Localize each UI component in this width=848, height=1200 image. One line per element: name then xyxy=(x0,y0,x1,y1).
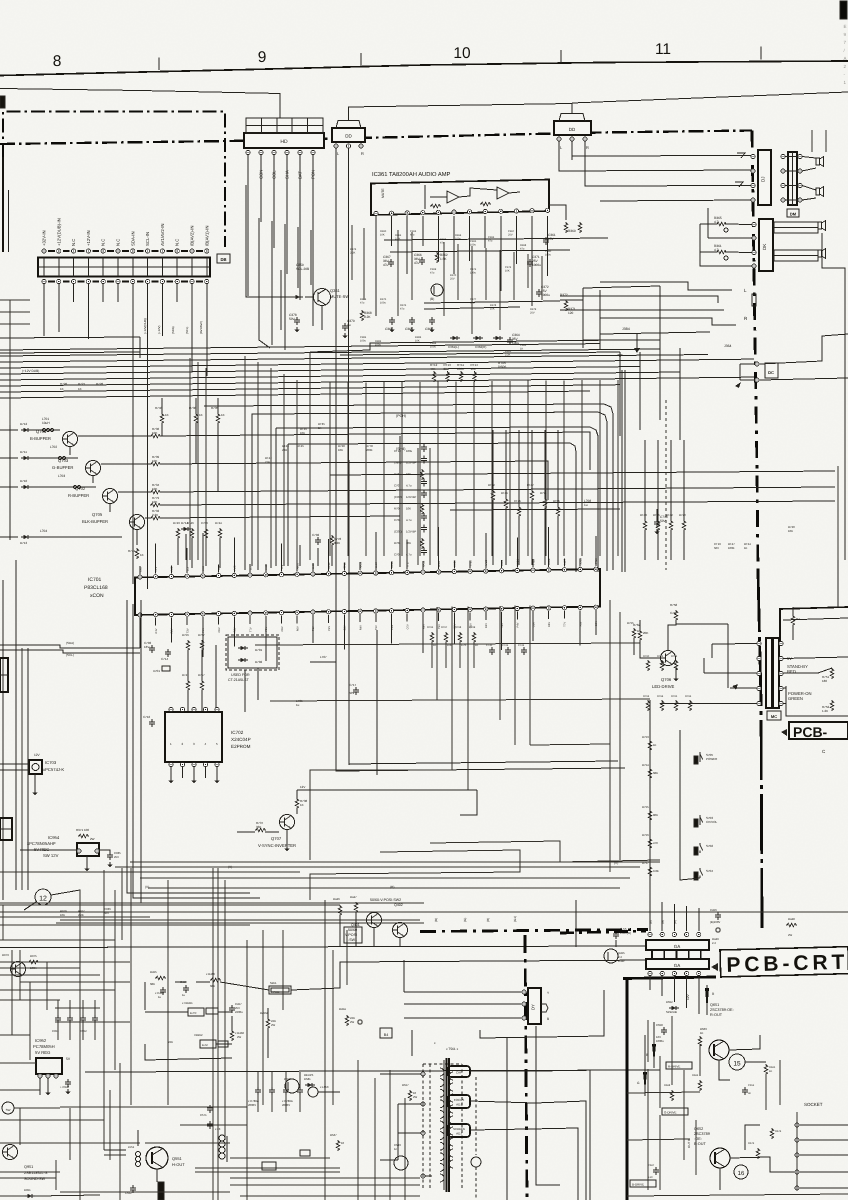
svg-text:R557: R557 xyxy=(402,1083,409,1087)
svg-text:47K: 47K xyxy=(430,367,435,371)
resistor R737 xyxy=(237,821,279,832)
svg-text:47u: 47u xyxy=(400,307,405,310)
wire left rail buffers xyxy=(9,425,11,540)
svg-text:R762: R762 xyxy=(671,655,678,658)
connector DJ plug body xyxy=(788,152,797,205)
connector DK pins xyxy=(752,222,756,268)
wire DD2 to right edge xyxy=(572,92,848,103)
resistor R557 xyxy=(402,1083,418,1101)
op-amp IC701 body xyxy=(135,569,600,615)
transistor Q406 small xyxy=(284,1077,299,1093)
heavy dash boundary bottom-left xyxy=(420,930,648,932)
wire thick 5V feed xyxy=(780,607,848,704)
heavy boundary vertical mid xyxy=(758,572,762,930)
svg-text:R769: R769 xyxy=(469,626,476,629)
capacitor C366 xyxy=(414,253,425,265)
svg-text:C721: C721 xyxy=(502,644,509,647)
capacitor C667 xyxy=(648,1164,659,1179)
connector DD1 pin labels xyxy=(337,151,364,156)
connector GA pins top xyxy=(648,932,701,936)
diode row D361 D362 xyxy=(448,336,503,349)
inductor L701 xyxy=(31,417,60,432)
svg-text:C667: C667 xyxy=(648,1164,655,1167)
svg-text:47u: 47u xyxy=(430,271,435,274)
svg-text:C658: C658 xyxy=(656,1023,663,1027)
ruler line xyxy=(0,61,848,76)
svg-text:1K: 1K xyxy=(653,743,657,747)
wires IC361 pins down xyxy=(376,216,548,316)
op-amp IC702 pins top xyxy=(169,707,219,711)
svg-text:R763: R763 xyxy=(643,695,650,698)
transistor Q551 H-OUT xyxy=(146,1147,185,1169)
svg-text:16V: 16V xyxy=(144,645,149,649)
svg-text:1K: 1K xyxy=(769,1070,772,1073)
svg-text:R765: R765 xyxy=(671,695,678,698)
svg-text:R764: R764 xyxy=(657,695,664,698)
svg-text:R-OUT: R-OUT xyxy=(710,1013,723,1017)
svg-text:B+52: B+52 xyxy=(202,1044,209,1047)
flyback secondary coil xyxy=(449,1072,453,1168)
capacitor C364 xyxy=(507,333,520,345)
svg-text:C362(R): C362(R) xyxy=(475,345,486,349)
op-amp IC703 body xyxy=(29,760,42,774)
op-amp IC361 pins xyxy=(374,208,550,215)
op-amp IC954 body xyxy=(77,843,99,856)
resistor R756 R757 pair xyxy=(182,633,205,651)
svg-text:D701: D701 xyxy=(255,648,263,652)
wires Q651 right xyxy=(719,1035,766,1080)
wire long verticals left-bottom xyxy=(80,868,347,1200)
wire horizontals mid right xyxy=(330,471,835,520)
diode D713 input xyxy=(0,529,122,545)
svg-text:R756: R756 xyxy=(182,633,189,637)
resistor R739 xyxy=(101,455,548,500)
svg-text:10K: 10K xyxy=(300,431,305,435)
svg-text:(R): (R) xyxy=(673,920,677,924)
svg-text:AV1/AV2-IN: AV1/AV2-IN xyxy=(160,223,165,246)
heavy dash vertical DY xyxy=(525,935,527,1200)
wires Q652 area xyxy=(720,1125,794,1190)
resistor R448 xyxy=(786,917,797,937)
svg-text:(G): (G) xyxy=(661,920,665,924)
svg-text:C717: C717 xyxy=(349,683,357,687)
svg-text:D581: D581 xyxy=(304,1077,311,1081)
svg-text:SOUND-SW: SOUND-SW xyxy=(24,1177,46,1181)
connector DD1 pins xyxy=(334,144,363,148)
wires bottom-left mesh xyxy=(0,950,140,1200)
svg-text:R: R xyxy=(586,145,589,150)
capacitor C658 xyxy=(656,1023,667,1043)
label MC xyxy=(767,711,781,720)
ruler tick 1 xyxy=(158,58,160,71)
transistor Q704 B-BUFFER xyxy=(30,429,78,447)
wire DD1 to DD2 arc xyxy=(349,104,573,121)
svg-text:(SDA): (SDA) xyxy=(66,641,74,645)
svg-text:10K: 10K xyxy=(490,307,495,310)
diode D710 input xyxy=(0,479,31,489)
svg-text:Q703: Q703 xyxy=(58,458,69,463)
svg-text:50V: 50V xyxy=(714,546,719,550)
wires Q707 xyxy=(284,790,477,851)
node circle SW xyxy=(2,1102,14,1114)
svg-text:VR452: VR452 xyxy=(194,1033,203,1037)
svg-text:100u: 100u xyxy=(360,339,366,342)
svg-text:C720: C720 xyxy=(486,644,493,647)
svg-text:47u: 47u xyxy=(383,263,389,267)
svg-text:ADJ: ADJ xyxy=(456,1103,462,1107)
svg-text:USED FOR: USED FOR xyxy=(231,673,250,677)
inductor L553 xyxy=(308,1085,340,1097)
svg-text:50V: 50V xyxy=(104,911,109,915)
svg-text:MC: MC xyxy=(771,714,777,719)
resistor R736 xyxy=(78,427,590,470)
svg-text:S451: S451 xyxy=(270,981,277,985)
resistor R738a xyxy=(189,398,203,464)
resistor R663 cluster xyxy=(698,1027,707,1047)
wires GA feeds down xyxy=(650,900,699,931)
svg-text:P83CL168: P83CL168 xyxy=(84,585,108,591)
speaker SP1 top xyxy=(816,157,824,167)
wires GA pins top labels xyxy=(649,920,677,924)
svg-text:9: 9 xyxy=(258,49,267,66)
op-amp IC952 label xyxy=(33,1038,55,1055)
op-amp IC702 label xyxy=(231,730,251,749)
svg-text:V-SYNC-INVERTER: V-SYNC-INVERTER xyxy=(258,843,296,848)
svg-text:SP#2UB: SP#2UB xyxy=(666,1010,677,1014)
svg-text:10uH: 10uH xyxy=(42,421,50,425)
svg-text:86K: 86K xyxy=(653,813,658,817)
small box left edge xyxy=(0,818,12,840)
svg-text:V-POSI: V-POSI xyxy=(345,933,357,937)
svg-text:R448: R448 xyxy=(788,917,795,921)
svg-text:(SCL): (SCL) xyxy=(66,653,74,657)
connector DB pin row lower xyxy=(42,279,209,283)
svg-text:J364: J364 xyxy=(724,344,731,348)
op-amp IC702 pins bottom xyxy=(169,762,219,766)
svg-text:10K: 10K xyxy=(471,367,476,371)
svg-text:R446: R446 xyxy=(333,897,340,901)
amp area vertical stubs xyxy=(352,225,542,334)
svg-text:120: 120 xyxy=(568,311,574,315)
svg-text:GA: GA xyxy=(674,944,681,949)
svg-text:Q704: Q704 xyxy=(36,429,47,434)
svg-text:IC954: IC954 xyxy=(48,835,60,840)
svg-text:R748: R748 xyxy=(155,406,163,410)
svg-text:2000V: 2000V xyxy=(248,1103,256,1107)
wire stepped runs lower-mid xyxy=(310,841,660,900)
svg-text:R762: R762 xyxy=(633,623,641,627)
wires DK left xyxy=(700,208,752,266)
svg-text:R665: R665 xyxy=(769,1066,776,1069)
op-amp IC702 body xyxy=(165,712,222,762)
transistor Q361 MUTE-SW xyxy=(305,288,349,306)
svg-text:x L553: x L553 xyxy=(320,1085,329,1089)
svg-text:(+12V): (+12V) xyxy=(157,325,161,334)
capacitor C563 xyxy=(394,1143,408,1170)
svg-text:J3B4: J3B4 xyxy=(622,327,630,331)
svg-text:D712: D712 xyxy=(20,422,28,426)
svg-text:Q651: Q651 xyxy=(710,1003,719,1007)
capacitor C378 xyxy=(289,313,300,332)
svg-text:B+TR: B+TR xyxy=(190,1012,197,1015)
svg-text:CT-21A5LST: CT-21A5LST xyxy=(228,678,250,682)
svg-text:D710: D710 xyxy=(20,479,28,483)
switch S705 POWER xyxy=(694,752,718,764)
svg-text:1K: 1K xyxy=(78,387,82,391)
wires left column mid xyxy=(3,560,28,900)
wires into DY xyxy=(404,960,521,1018)
connector DB body xyxy=(38,258,210,277)
svg-text:2SC3789-OE-: 2SC3789-OE- xyxy=(710,1008,735,1012)
resistor R764 ladder xyxy=(642,735,659,877)
svg-text:1000u: 1000u xyxy=(532,263,541,267)
node circle 12 xyxy=(35,889,51,905)
connector DB pin row upper xyxy=(42,249,209,253)
svg-text:R743: R743 xyxy=(173,521,180,525)
svg-text:L704: L704 xyxy=(40,529,47,533)
svg-text:RT45: RT45 xyxy=(297,444,304,448)
connector GA body lower xyxy=(646,959,709,969)
capacitor C361 xyxy=(543,233,556,245)
label USED FOR CT-21A5LST xyxy=(228,673,250,682)
svg-text:11: 11 xyxy=(655,41,671,58)
resistor R456A xyxy=(260,1011,276,1029)
svg-text:(B)160V: (B)160V xyxy=(710,920,720,924)
svg-text:Q401: Q401 xyxy=(351,923,360,927)
diode D712 input xyxy=(0,422,31,432)
svg-text:T5V: T5V xyxy=(375,625,378,630)
connector DJ pins left xyxy=(751,154,755,202)
wires IC954 left xyxy=(20,850,110,852)
resistor cluster R766 group xyxy=(427,626,478,668)
svg-text:E2PROM: E2PROM xyxy=(231,744,251,749)
transistor Q706 LED-DRIVE xyxy=(652,651,676,690)
connector MD pins left column xyxy=(757,641,761,705)
wires IC703 xyxy=(0,764,38,795)
svg-text:(+12V DUB): (+12V DUB) xyxy=(22,369,39,373)
svg-text:12V: 12V xyxy=(34,753,41,757)
transistor Q707 V-SYNC-INVERTER xyxy=(258,815,296,849)
wires DB pins down xyxy=(44,284,207,589)
svg-text:DSP6: DSP6 xyxy=(498,365,507,369)
svg-text:100u: 100u xyxy=(380,301,386,304)
wires vposi mid xyxy=(145,960,660,1060)
svg-text:R768: R768 xyxy=(455,626,462,629)
label DB xyxy=(217,254,230,263)
black bar heatsink xyxy=(158,1182,164,1200)
wire loop left drops xyxy=(252,417,288,566)
svg-text:+12V-IN: +12V-IN xyxy=(86,230,91,246)
wires right edge box xyxy=(783,560,848,620)
svg-text:T7V: T7V xyxy=(249,627,252,632)
svg-text:BLK-BUFFER: BLK-BUFFER xyxy=(82,519,108,524)
svg-text:MUTE-SW: MUTE-SW xyxy=(330,294,349,299)
svg-text:10K: 10K xyxy=(152,459,157,463)
svg-text:DC: DC xyxy=(768,370,774,375)
resistor R738 vsync xyxy=(295,790,307,814)
wires IC701 long drops left xyxy=(300,605,530,860)
wire tall verticals center-right xyxy=(530,600,620,872)
wire LED horizontals xyxy=(660,624,758,704)
socket pins xyxy=(795,1112,848,1190)
transistor Q953 xyxy=(2,953,26,977)
svg-text:2W: 2W xyxy=(350,1020,355,1024)
wires IC701 bottom pin stubs xyxy=(140,610,596,661)
wires bus to IC701 left xyxy=(190,352,310,560)
svg-text:R2V: R2V xyxy=(485,623,488,628)
svg-text:A: A xyxy=(844,56,847,61)
capacitor C940 xyxy=(60,1079,71,1094)
svg-text:+32V-IN: +32V-IN xyxy=(42,230,47,246)
svg-text:C7B: C7B xyxy=(670,611,676,615)
svg-text:R720: R720 xyxy=(679,513,686,517)
op-amp IC701 label xyxy=(84,577,108,599)
wires bus mid drops xyxy=(330,380,618,556)
wires vertical trio at IC954 xyxy=(122,600,270,940)
connector DC xyxy=(600,332,848,388)
svg-text:R756: R756 xyxy=(642,833,649,837)
svg-text:xCON: xCON xyxy=(90,593,104,599)
svg-text:C952: C952 xyxy=(80,1029,87,1033)
capacitor C951 cluster xyxy=(52,1000,98,1040)
svg-text:DJ: DJ xyxy=(761,177,766,183)
svg-text:O7V: O7V xyxy=(407,624,410,629)
wires IC702 bottom grounds xyxy=(168,767,219,783)
op-amp IC702 pin numbers xyxy=(170,742,218,746)
capacitor C371 xyxy=(527,255,541,267)
svg-text:1K: 1K xyxy=(199,413,203,417)
resistor R456 xyxy=(206,972,221,988)
svg-text:O5V: O5V xyxy=(218,627,221,632)
label PCB main xyxy=(781,722,848,740)
capacitor C372 xyxy=(536,285,550,297)
svg-text:L703: L703 xyxy=(58,474,65,478)
wires IC952 xyxy=(0,1063,51,1095)
capacitor C716 xyxy=(143,715,155,727)
small box left edge upper xyxy=(0,658,8,692)
svg-text:D652: D652 xyxy=(666,1000,673,1004)
svg-text:R767: R767 xyxy=(441,626,448,629)
svg-text:IC702: IC702 xyxy=(231,730,244,735)
svg-text:xPC78N05AHF: xPC78N05AHF xyxy=(27,841,56,846)
svg-text:(G): (G) xyxy=(463,918,467,922)
svg-text:(H): (H) xyxy=(390,885,394,889)
svg-text:V-POSI: V-POSI xyxy=(271,991,280,994)
transistor Q368 xyxy=(430,284,443,301)
resistor R455 left xyxy=(150,970,166,986)
svg-text:R754: R754 xyxy=(642,763,649,767)
svg-text:2SC3789: 2SC3789 xyxy=(694,1132,710,1136)
svg-text:+10: +10 xyxy=(648,1176,653,1179)
label C359 xyxy=(296,263,309,271)
svg-text:1n: 1n xyxy=(394,1147,398,1151)
svg-text:P2V: P2V xyxy=(328,626,331,631)
svg-text:B-BUFFER: B-BUFFER xyxy=(30,436,51,441)
svg-text:1000u: 1000u xyxy=(656,1039,664,1043)
wire mute branch xyxy=(281,270,322,330)
wires SDA SCL left xyxy=(0,641,140,657)
transistor Q652 label xyxy=(694,1127,710,1146)
connector MD pins right column xyxy=(779,641,783,705)
svg-text:Q402: Q402 xyxy=(394,903,403,907)
svg-text:+12V(DUB)-IN: +12V(DUB)-IN xyxy=(56,218,61,246)
svg-text:DK: DK xyxy=(762,244,767,250)
svg-text:G-BUFFER: G-BUFFER xyxy=(52,465,73,470)
op-amp IC703 label xyxy=(43,760,64,772)
svg-text:10K: 10K xyxy=(338,448,343,452)
svg-text:12V: 12V xyxy=(686,993,690,1000)
op-amp IC701 top pins xyxy=(138,567,598,579)
diode D711 input xyxy=(0,450,31,460)
op-amp IC361 body xyxy=(371,180,549,216)
flyback dashed frame xyxy=(423,1064,462,1190)
svg-text:PCB-CRT: PCB-CRT xyxy=(726,951,845,977)
svg-text:Q707: Q707 xyxy=(271,836,282,841)
resistor R365 xyxy=(714,216,728,232)
inductor L705 xyxy=(296,699,303,707)
wires flyback left pins xyxy=(380,1074,432,1176)
connector GA separators xyxy=(652,950,701,959)
labels R976 cluster xyxy=(60,907,111,917)
wires right column lower xyxy=(627,1060,848,1196)
switch S702 xyxy=(694,843,713,855)
svg-text:R975: R975 xyxy=(30,954,37,958)
svg-text:R45A: R45A xyxy=(339,1007,346,1011)
svg-text:10K: 10K xyxy=(60,913,65,917)
wire CUT out xyxy=(470,1070,590,1200)
wire branch at 12 xyxy=(24,890,80,910)
svg-text:(V): (V) xyxy=(614,861,618,865)
svg-text:4.7: 4.7 xyxy=(714,220,719,224)
resistor labels mid cluster xyxy=(265,422,373,464)
capacitor C367 xyxy=(383,255,394,267)
svg-text:33K: 33K xyxy=(256,825,261,829)
svg-text:1u: 1u xyxy=(182,993,186,997)
wires GA down xyxy=(650,976,699,1014)
svg-text:R766: R766 xyxy=(685,695,692,698)
svg-text:68K: 68K xyxy=(210,984,215,988)
adjust box CUT xyxy=(448,1066,470,1077)
svg-text:(V): (V) xyxy=(228,865,232,869)
svg-text:10K: 10K xyxy=(152,487,157,491)
wires IC954 ground xyxy=(84,856,89,871)
svg-text:2.2: 2.2 xyxy=(712,941,716,945)
svg-text:47u: 47u xyxy=(520,247,525,250)
svg-text:L551: L551 xyxy=(128,1145,135,1149)
connector DY body xyxy=(528,988,548,1024)
adjust box SCREEN xyxy=(448,1124,470,1137)
connector DD2 body xyxy=(554,114,591,136)
svg-text:2W: 2W xyxy=(90,837,95,841)
svg-text:180: 180 xyxy=(822,679,827,683)
boxed label R-DRIVE xyxy=(666,1062,692,1069)
svg-text:R672: R672 xyxy=(748,1142,755,1145)
svg-text:1/2V BP: 1/2V BP xyxy=(406,530,416,534)
svg-text:/B(AV1)-IN: /B(AV1)-IN xyxy=(204,226,209,246)
heavy vertical right bottom xyxy=(626,978,629,1200)
svg-text:33K: 33K xyxy=(444,367,449,371)
svg-text:1K: 1K xyxy=(744,546,748,550)
diode D652 xyxy=(666,1000,679,1014)
svg-text:R-BUFFER: R-BUFFER xyxy=(68,493,89,498)
wire speakers right edge down xyxy=(822,233,845,560)
heavy boundary dashed vertical upper xyxy=(752,131,758,573)
svg-text:2W: 2W xyxy=(413,1095,418,1099)
svg-text:CT45: CT45 xyxy=(514,499,521,503)
svg-text:R0V: R0V xyxy=(297,626,300,631)
connector MD body xyxy=(766,638,779,708)
wires lower step to L R xyxy=(560,282,756,325)
